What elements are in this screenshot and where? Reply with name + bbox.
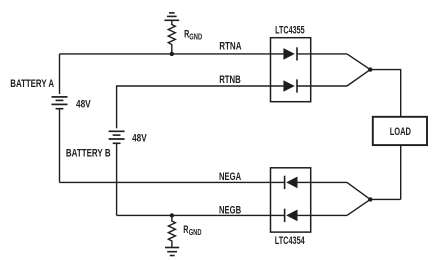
svg-text:NEGA: NEGA: [219, 171, 241, 183]
diode D2 (RTNB, in LTC4355): [283, 79, 347, 92]
ground (top, above RGND): [164, 13, 179, 20]
node junction (bottom OR output): [368, 197, 372, 201]
wire battery A positive lead: [59, 54, 61, 94]
wire NEGB: [117, 214, 285, 216]
svg-text:LOAD: LOAD: [390, 126, 411, 138]
wire converge (bottom): [347, 182, 401, 215]
diode D1 (RTNA, in LTC4355): [283, 47, 347, 60]
wire battery B negative lead: [116, 143, 118, 215]
label RGND (bottom): [183, 224, 201, 237]
node junction (top OR output): [368, 67, 372, 71]
diode D3 (NEGA, in LTC4354): [285, 176, 347, 189]
diode D4 (NEGB, in LTC4354): [285, 209, 347, 222]
svg-text:RTNB: RTNB: [219, 74, 241, 86]
ground (bottom): [165, 248, 179, 256]
resistor RGND (top): [168, 20, 175, 54]
wire RTNB: [117, 86, 284, 128]
wire RTNA: [60, 53, 284, 55]
wire LOAD bottom: [400, 145, 402, 199]
svg-text:48V: 48V: [76, 99, 91, 111]
svg-text:GND: GND: [189, 32, 202, 42]
svg-text:LTC4355: LTC4355: [275, 25, 305, 37]
battery BATTERY B: [109, 131, 125, 143]
label RGND (top): [184, 28, 202, 41]
LOAD box: [373, 117, 427, 145]
node junction NEGB/RGND: [170, 213, 174, 217]
wire NEGA: [60, 181, 285, 183]
svg-text:LTC4354: LTC4354: [275, 235, 305, 247]
resistor RGND (bottom): [168, 215, 175, 247]
battery BATTERY A: [52, 97, 68, 109]
IC U1 LTC4355 box: [271, 38, 311, 102]
node junction RTNA/RGND: [170, 52, 174, 56]
svg-text:48V: 48V: [132, 133, 147, 145]
svg-text:GND: GND: [189, 227, 202, 237]
IC U2 LTC4354 box: [271, 168, 311, 232]
wire converge (top): [347, 54, 401, 117]
wire battery A negative lead: [59, 109, 61, 183]
svg-text:BATTERY B: BATTERY B: [66, 148, 111, 160]
svg-text:NEGB: NEGB: [219, 205, 241, 217]
svg-text:BATTERY A: BATTERY A: [10, 78, 54, 90]
svg-text:RTNA: RTNA: [219, 41, 242, 53]
